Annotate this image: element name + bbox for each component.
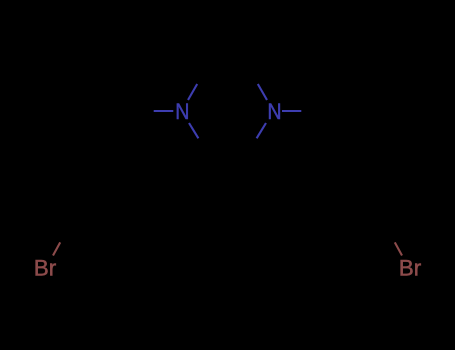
bond N1-C6 (lower-right half-bond stub from N1) (189, 123, 198, 138)
bond N2-C5 (lower-left half-bond stub from N2) (257, 123, 266, 138)
bond Br2-C (red half-bond stub up-left from right Br) (395, 242, 402, 255)
bond N1-C2 (upper-right half-bond stub from N1) (188, 84, 197, 100)
bond N1-CH3 (horizontal half-bond stub left of N1) (154, 110, 174, 112)
bond N2-CH3 (horizontal half-bond stub right of N2) (282, 110, 301, 112)
bond Br1-C (red half-bond stub up-right from left Br) (53, 242, 60, 255)
bond N2-C3 (upper-left half-bond stub from N2) (258, 84, 267, 100)
svg-text:N: N (267, 99, 281, 124)
svg-text:N: N (175, 99, 189, 124)
svg-text:Br: Br (399, 256, 422, 281)
svg-text:Br: Br (34, 256, 57, 281)
